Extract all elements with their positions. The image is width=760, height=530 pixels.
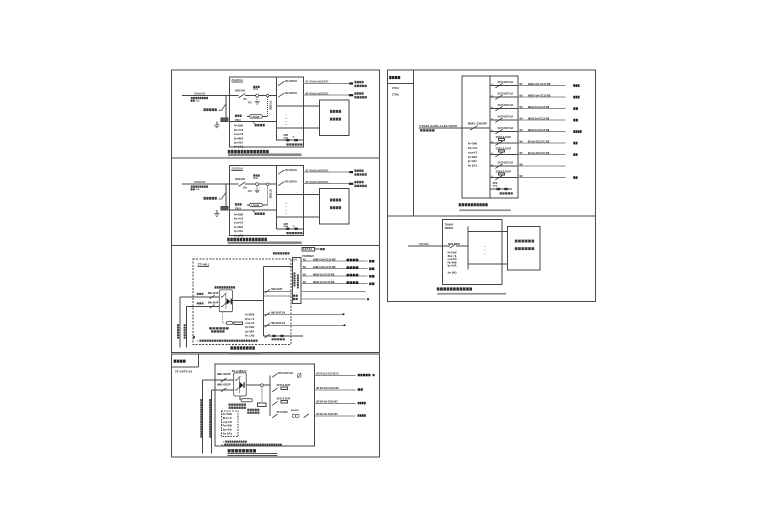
svg-text:NM1-63/3P: NM1-63/3P — [217, 383, 231, 387]
P1 W2 destination label line1 — [354, 92, 363, 94]
svg-text:NM1-100/3P 80A: NM1-100/3P 80A — [285, 179, 297, 183]
P2 W1 destination label line1 — [354, 170, 363, 172]
P5 branch wire row5 inside — [490, 131, 518, 133]
svg-text:In (A): In (A) — [468, 164, 477, 168]
svg-text:NM1-100/3P 80A: NM1-100/3P 80A — [285, 91, 297, 95]
P1 grounding down-lead wire — [225, 96, 227, 118]
P1 title: warehouse 1# workshop distribution box electric system diagram — [228, 150, 269, 153]
P4 circuit W1 load label — [358, 374, 371, 377]
P3 feeder 2 wire — [187, 305, 220, 307]
svg-text:Pjs=60kW: Pjs=60kW — [468, 155, 477, 159]
svg-text:DZ47-60/1P 16A: DZ47-60/1P 16A — [498, 103, 513, 107]
P5 SPD name label — [500, 192, 513, 194]
svg-text:L1: L1 — [491, 118, 493, 120]
svg-text:CT0#L: CT0#L — [392, 92, 400, 96]
P2 W1 destination terminal box — [349, 171, 353, 173]
P2 outgoing wire W2 — [304, 183, 349, 185]
svg-text:W4: W4 — [303, 281, 306, 284]
svg-text:L3: L3 — [491, 141, 493, 143]
P1 outgoing wire W1 — [304, 83, 350, 85]
svg-text:KS-A 480/4.0: KS-A 480/4.0 — [232, 369, 248, 373]
svg-text:W4: W4 — [520, 117, 523, 120]
P3 circuit W3 load label — [347, 274, 359, 277]
P1 breaker QF2 — [278, 93, 284, 97]
P3 feeder 2 source label — [197, 302, 204, 304]
svg-text:DZ47-60/1P 16A: DZ47-60/1P 16A — [278, 371, 293, 375]
P3 feeder 1 vertical cable label — [177, 324, 179, 338]
P4 CT secondary wire — [261, 387, 263, 403]
P1 cabinet designation underline — [231, 81, 243, 83]
P1 meter box label leader — [253, 121, 255, 124]
P3 feeder 2 riser wire — [186, 306, 188, 347]
P4 input tick 2 — [236, 389, 237, 390]
P2 cabinet designation underline — [231, 169, 243, 171]
P4 current transformer CT — [260, 384, 263, 387]
P1 SPD name label — [286, 143, 302, 145]
svg-text:200A: 200A — [243, 98, 247, 101]
P5 incoming feeder wire — [419, 127, 462, 129]
P5 branch breaker row8 — [495, 164, 502, 169]
P3 feeder 1 switch — [210, 295, 215, 299]
P4 feeder 2 vertical cable label — [209, 399, 211, 438]
P4 feeder 1 vertical cable label — [200, 399, 202, 438]
panel P3 border (main distribution box system) — [171, 245, 379, 352]
svg-text:NHBV-3x4-SC15-WE: NHBV-3x4-SC15-WE — [313, 280, 335, 284]
P5 branch wire row3 inside — [490, 108, 518, 110]
P1 dedicated cabinet label line2 — [330, 118, 341, 121]
P3 circuit W3 end label — [369, 275, 374, 278]
P2 W1 destination label line2 — [354, 173, 366, 175]
P1 W1 destination label line1 — [354, 81, 363, 83]
P3 title: main distribution box electric system diagram — [230, 346, 254, 349]
panel P1 border (warehouse 1# distribution box system) — [171, 70, 379, 158]
P1 surge protector SPD element 2 — [294, 139, 298, 142]
P4 title block name: 4# distribution box — [174, 360, 186, 363]
P1 W1 destination terminal box — [349, 82, 353, 84]
P5 outgoing wire W1 — [518, 85, 566, 87]
panel P5 border (duty room lighting box system) — [388, 70, 596, 216]
svg-text:RT0-200: RT0-200 — [248, 103, 252, 105]
P2 title: warehouse 2# workshop secondary distribution box system diagram — [227, 238, 267, 241]
P4 circuit W3 wire — [314, 402, 355, 404]
P3 EPS input tick 2 — [221, 306, 222, 307]
P3 breaker row C — [265, 323, 270, 327]
P5 row9 RCD box — [498, 173, 504, 175]
P2 outgoing wire W1 — [304, 171, 350, 173]
svg-text:HD13BX-200/31: HD13BX-200/31 — [235, 177, 246, 181]
P2 title underline — [228, 241, 302, 243]
P4 title block horizontal divider — [171, 366, 198, 368]
P6 wire switch to divider — [456, 245, 468, 247]
P1 dedicated cabinet label line1 — [330, 110, 341, 113]
P4 circuit W4 load label — [358, 414, 366, 417]
svg-text:NM1-63/4P: NM1-63/4P — [271, 287, 282, 291]
P5 surge protector element 2 — [504, 188, 508, 191]
svg-text:DZ47-60/1P 16A: DZ47-60/1P 16A — [498, 91, 513, 95]
P4 inner vertical — [238, 377, 240, 394]
P4 circuit W1 wire — [314, 374, 355, 376]
P1 title underline — [228, 153, 302, 155]
P3 note: lead to distribution box — [273, 252, 290, 254]
svg-text:NM1-63/4P: NM1-63/4P — [208, 291, 219, 295]
P2 distribution cabinet outline — [229, 165, 303, 235]
P3 legend label — [320, 248, 325, 250]
P4 title block vertical divider — [197, 354, 199, 367]
P2 incoming note: burial depth — [191, 188, 195, 190]
P3 enclosure designation underline — [198, 266, 210, 268]
P5 incoming laying note — [420, 129, 434, 131]
P2 meter connection wire — [262, 204, 267, 206]
svg-text:NM1-63/4P: NM1-63/4P — [208, 301, 219, 305]
P1 W1 destination label line2 — [354, 85, 366, 87]
P2 current transformer CT — [266, 183, 269, 186]
svg-text:DZ47-60/1P 16A: DZ47-60/1P 16A — [498, 80, 513, 84]
P2 arrester ground symbol — [255, 190, 260, 193]
svg-text:1AT-X1: 1AT-X1 — [303, 248, 313, 251]
panel P2 border (warehouse 2# secondary distribution box system) — [171, 158, 379, 245]
P1 meter compartment divider line — [229, 120, 276, 122]
P1 arrester ground symbol — [255, 102, 260, 105]
svg-text:NHBV-3x4-SC15-WE: NHBV-3x4-SC15-WE — [313, 265, 336, 269]
P1 wire to dedicated cabinet upper — [277, 105, 320, 107]
svg-text:20KA: 20KA — [493, 184, 498, 187]
svg-text:In (A): In (A) — [448, 270, 457, 274]
P5 branch breaker row2 — [495, 95, 502, 100]
P5 branch breaker row5 — [495, 129, 502, 134]
P1 outgoing bus — [276, 78, 278, 141]
P2 kWh meter element — [250, 203, 263, 206]
P3 feeder 1 source label — [197, 293, 204, 295]
svg-text:1.5(6)A: 1.5(6)A — [251, 115, 259, 118]
P1 CT secondary wire down — [267, 97, 269, 116]
P4 breaker row1 — [272, 373, 277, 377]
P5 branch wire row1 inside — [490, 85, 518, 87]
P2 surge protector SPD element 1 — [286, 228, 290, 231]
svg-text:W1: W1 — [303, 258, 306, 261]
P4 breaker row2 — [272, 388, 277, 392]
P4 breaker row4 second — [304, 414, 309, 418]
P3 EPS switchover box — [219, 290, 232, 312]
svg-text:W6: W6 — [520, 140, 523, 143]
P5 circuit W6 load label — [573, 142, 577, 145]
P2 main knife switch — [239, 182, 246, 186]
svg-text:-0.8m: -0.8m — [196, 101, 200, 103]
P4 circuit W1 load label suffix — [373, 374, 375, 376]
svg-text:NHBV-3x4 SC15 WE: NHBV-3x4 SC15 WE — [528, 105, 550, 109]
P4 circuit W2 load label — [358, 388, 363, 391]
P1 meter box label — [255, 124, 265, 127]
svg-text:DZ47-60/1P 16A: DZ47-60/1P 16A — [498, 114, 513, 118]
P3 feeder 2 vertical cable label — [184, 324, 186, 338]
P4 row3 RCD box — [281, 401, 288, 403]
P4 note 2 text — [224, 444, 282, 446]
P3 legend connecting wire — [314, 248, 319, 250]
P2 breaker QF2 — [278, 182, 284, 186]
P2 grounding note leader line — [222, 192, 226, 198]
svg-text:ZS-G1JR-A1: ZS-G1JR-A1 — [231, 78, 243, 82]
svg-text:W1 YJV-4x25+1x16-SC40-FC: W1 YJV-4x25+1x16-SC40-FC — [306, 168, 329, 172]
P1 ground stub wire — [216, 122, 218, 125]
P3 legend box — [302, 247, 314, 251]
P5 branch wire row4 inside — [490, 119, 518, 121]
svg-text:YJV22-4x35+1x16-SC50: YJV22-4x35+1x16-SC50 — [419, 124, 457, 128]
P3 sub-box vertical label col2 — [297, 275, 299, 289]
P5 circuit W7 load label — [573, 153, 577, 156]
P5 branch breaker row9 — [495, 175, 502, 180]
P4 switch dark symbol — [240, 382, 245, 388]
svg-text:200A: 200A — [243, 187, 247, 190]
P3 feeder 1 riser wire — [179, 297, 181, 348]
P6 site box outline — [443, 220, 503, 285]
P4 kWh meter box — [258, 403, 266, 407]
svg-text:NHBV-3x4-SC15-WE: NHBV-3x4-SC15-WE — [313, 257, 336, 261]
P4 feeder 2 wire — [212, 389, 234, 391]
svg-text:W1 YJV-4x25+1x16-SC40-FC: W1 YJV-4x25+1x16-SC40-FC — [306, 80, 329, 84]
P2 W2 destination label line1 — [354, 181, 363, 183]
P3 internal bus — [262, 267, 264, 336]
svg-text:W8: W8 — [520, 163, 523, 166]
P5 surge protector element 1 — [496, 188, 500, 191]
P1 meter label — [235, 115, 242, 117]
P1 meter connection wire — [262, 115, 267, 117]
P1 title bar — [228, 155, 302, 157]
P3 battery label line1 — [209, 327, 228, 329]
svg-text:W3: W3 — [303, 274, 306, 277]
svg-text:In (A): In (A) — [223, 432, 232, 436]
svg-text:DZ47-60/1P 16A: DZ47-60/1P 16A — [498, 160, 513, 164]
P4 breaker row4 — [272, 414, 277, 418]
P3 dashed enclosure of main distribution box — [193, 259, 291, 345]
svg-text:750kVA: 750kVA — [445, 223, 454, 227]
svg-text:YJV22-4x50+1x25-SC80: YJV22-4x50+1x25-SC80 — [194, 91, 205, 95]
P2 note: grounding down-lead -40x4 — [204, 197, 217, 200]
P4 transformer bottom tap wire — [239, 396, 241, 400]
P4 row4 socket circle 2 — [296, 414, 299, 417]
P3 surge protector element 1 — [272, 335, 276, 337]
P2 bus continuation dots — [285, 202, 288, 205]
P2 dedicated fire-elevator cabinet box — [320, 189, 349, 225]
svg-text:BZ28/XX: BZ28/XX — [291, 410, 299, 412]
P2 breaker QF1 — [278, 170, 284, 174]
panel P4 border (4# distribution box system) — [171, 354, 379, 457]
svg-text:W2 YJV-4x35+1x16-SC50-FC: W2 YJV-4x35+1x16-SC50-FC — [306, 180, 329, 184]
P3 circuit W4 end label — [369, 283, 374, 286]
svg-text:L1: L1 — [491, 84, 493, 86]
P3 bus to sub-box link wire — [263, 266, 292, 268]
P4 changeover switch box — [234, 373, 247, 396]
P4 blade 2 — [237, 386, 241, 390]
P3 note text line — [199, 340, 257, 342]
P1 wire to dedicated cabinet lower — [277, 127, 320, 129]
P2 wire CT to bus — [269, 183, 277, 185]
P5 row7 RCD box — [498, 150, 504, 152]
P4 feeder 2 switch — [221, 388, 226, 392]
P5 branch wire row6 inside — [490, 142, 518, 144]
svg-text:Ijs=114A: Ijs=114A — [468, 159, 477, 163]
svg-text:W2: W2 — [303, 266, 306, 269]
P1 surge protector SPD element 1 — [286, 139, 290, 142]
svg-text:1C: 1C — [293, 137, 296, 139]
P3 SPD branch switch — [265, 334, 270, 338]
P2 meter box label — [255, 213, 265, 216]
P5 outgoing wire W6 — [518, 142, 566, 144]
P3 sub-box bottom label b — [293, 298, 298, 300]
P3 title bar — [229, 352, 262, 354]
svg-text:RT0-200: RT0-200 — [248, 191, 252, 193]
P1 wire meter to left — [247, 115, 249, 117]
P4 title underline 1 — [228, 453, 278, 455]
P6 internal divider — [467, 227, 469, 270]
svg-text:In (A): In (A) — [234, 145, 243, 149]
P2 repeated-grounding terminal box — [221, 206, 228, 210]
P3 SPD branch wire — [263, 335, 303, 337]
svg-text:NM1-100/3P: NM1-100/3P — [468, 122, 487, 126]
P2 dedicated cabinet label line1 — [330, 199, 341, 202]
P5 circuit W4 load label — [573, 119, 578, 122]
P6 incoming feeder wire — [408, 245, 450, 247]
P1 wire CT to bus — [269, 95, 277, 97]
P5 outgoing wire W7 — [518, 154, 566, 156]
svg-text:W4 BV-3x4-SC20-WC: W4 BV-3x4-SC20-WC — [316, 412, 338, 416]
P4 load parameter dashed box — [221, 411, 238, 437]
P4 meter note line1 — [247, 409, 259, 411]
P3 EPS blade 1 — [222, 293, 226, 297]
P5 branch breaker row7 — [495, 152, 502, 157]
P3 SPD name label — [272, 338, 285, 340]
svg-text:CT1#L: CT1#L — [392, 86, 400, 90]
svg-text:Ijs=19A: Ijs=19A — [447, 264, 456, 268]
P3 battery pack box — [234, 322, 242, 325]
svg-text:Kx=0.8: Kx=0.8 — [468, 146, 477, 150]
svg-text:W5: W5 — [520, 129, 523, 132]
P5 main switch — [470, 126, 478, 131]
P1 wire arrester to CT — [259, 95, 266, 97]
svg-text:W2 YJV-4x35+1x16-SC50-FC: W2 YJV-4x35+1x16-SC50-FC — [306, 91, 329, 95]
P2 meter label — [235, 203, 242, 205]
P3 circuit W1 end label — [369, 260, 374, 263]
P2 surge protector SPD element 2 — [294, 228, 298, 231]
svg-text:DZ47-60/1P 16A: DZ47-60/1P 16A — [498, 126, 513, 130]
P1 repeated-grounding terminal box — [221, 118, 228, 122]
P3 row C end terminal — [344, 324, 346, 326]
svg-text:W2: W2 — [520, 94, 523, 97]
svg-text:W3 BV-3x4-SC20-WC: W3 BV-3x4-SC20-WC — [316, 400, 338, 404]
svg-text:NHBV-3x4-SC15-WE: NHBV-3x4-SC15-WE — [313, 273, 335, 277]
P4 circuit W4 wire — [314, 415, 355, 417]
P3 battery label line2 — [211, 330, 225, 332]
P3 spare circuit wire row6 left — [263, 295, 292, 297]
P1 breaker QF1 — [278, 81, 284, 85]
svg-text:W7: W7 — [520, 152, 523, 155]
P5 circuit W5 load label — [573, 130, 581, 133]
svg-text:NM1-63/3P: NM1-63/3P — [217, 372, 231, 376]
svg-text:W1: W1 — [520, 83, 523, 86]
P5 outgoing wire W8 — [518, 165, 566, 167]
P6 field box label line2 — [515, 247, 534, 250]
svg-text:HD13BX-200/31: HD13BX-200/31 — [235, 88, 246, 92]
P4 meter note line2 — [247, 412, 259, 414]
P2 dedicated cabinet label line2 — [330, 206, 341, 209]
P5 lighting box outline — [462, 76, 518, 198]
svg-text:L2: L2 — [491, 95, 493, 97]
P1 arrester gap wire — [256, 97, 258, 101]
svg-text:1.: 1. — [197, 341, 200, 343]
P1 main knife switch — [239, 93, 246, 97]
P5 circuit W3 load label — [573, 107, 578, 110]
P5 branch wire row9 inside — [490, 177, 518, 179]
P6 field secondary box outline — [507, 227, 540, 271]
svg-text:NM1-100/3P 63A: NM1-100/3P 63A — [285, 79, 297, 83]
P1 arrester name label — [253, 86, 259, 88]
P5 branch breaker row1 — [495, 83, 502, 88]
P6 main switch — [450, 244, 455, 248]
P1 surge arrester — [256, 94, 259, 97]
P1 bus continuation dots — [285, 114, 288, 117]
svg-text:FYS-0.22: FYS-0.22 — [253, 89, 258, 91]
P4 feeder 2 riser wire — [211, 390, 213, 454]
svg-text:1C: 1C — [293, 225, 296, 227]
svg-text:NHBV-3x4 SC15 WE: NHBV-3x4 SC15 WE — [528, 82, 551, 86]
P6 upper branch wire — [468, 230, 507, 232]
P2 wire meter to left — [247, 204, 249, 206]
P2 outgoing bus — [276, 166, 278, 229]
P5 outgoing wire W4 — [518, 119, 566, 121]
P3 EPS blade 2 — [222, 302, 226, 306]
P4 row1 RCD circle symbol — [297, 373, 301, 377]
P3 outgoing circuit W1 wire — [301, 260, 367, 262]
P3 EPS inner vertical — [225, 294, 227, 309]
svg-text:FYS-0.22: FYS-0.22 — [253, 178, 258, 180]
P4 transformer output wire — [246, 384, 270, 386]
svg-text:W2 BV-3x2.5-SC15-WC: W2 BV-3x2.5-SC15-WC — [316, 386, 339, 390]
svg-text:DTS858: DTS858 — [269, 101, 272, 111]
P3 lighting sub-distribution box — [293, 257, 301, 303]
svg-text:BV-3x4 SC15 FC.WE: BV-3x4 SC15 FC.WE — [528, 151, 550, 155]
P6 title bar — [437, 293, 506, 295]
P2 meter compartment divider line — [229, 209, 276, 211]
svg-text:W3: W3 — [520, 106, 523, 109]
svg-text:NM1-100/3P 63A: NM1-100/3P 63A — [285, 168, 297, 172]
P2 W2 destination terminal box — [349, 183, 353, 185]
P3 row6 end terminal box — [367, 298, 369, 300]
P3 battery element rounded — [226, 322, 233, 325]
P2 grounding down-lead wire — [225, 184, 227, 206]
P5 circuit W2 load label — [573, 96, 579, 99]
P5 title bar — [459, 209, 511, 211]
P4 circuit W3 load label — [358, 402, 366, 405]
P1 SPD branch wire — [277, 139, 304, 141]
svg-text:NM1-63/4P 25A: NM1-63/4P 25A — [271, 321, 285, 325]
svg-text:BV-3x4 SC15 FC.WE: BV-3x4 SC15 FC.WE — [528, 139, 550, 143]
svg-text:L2: L2 — [491, 164, 493, 166]
svg-text:YJV-5x16: YJV-5x16 — [419, 242, 429, 246]
P1 distribution cabinet outline — [229, 77, 303, 147]
P2 title bar — [228, 243, 302, 245]
P5 circuit W1 load label — [573, 84, 579, 87]
P3 circuit W2 end label — [369, 268, 374, 271]
P5 branch breaker row3 — [495, 106, 502, 111]
P5 internal bus divider — [489, 76, 491, 198]
P4 circuit W2 wire — [314, 389, 355, 391]
P4 input tick 1 — [236, 379, 237, 380]
P5 incoming wire to bus — [462, 127, 490, 129]
svg-text:cosφ=0.8: cosφ=0.8 — [468, 150, 477, 154]
P2 incoming feeder wire segment — [182, 183, 239, 185]
P2 meter box label leader — [253, 210, 255, 213]
P1 grounding note leader line — [222, 104, 226, 110]
P2 SPD name label — [286, 232, 302, 234]
P3 row B end terminal — [343, 313, 345, 315]
